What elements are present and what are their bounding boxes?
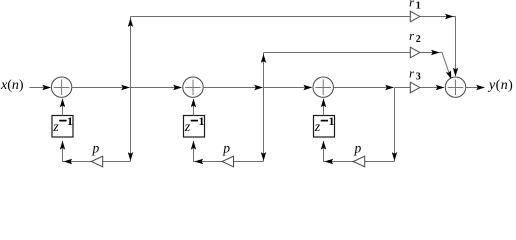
delay Z2 z^-1 box [184,114,205,137]
wire delay Z2 up into adder U2 [193,99,195,116]
svg-text:1: 1 [67,114,73,128]
svg-text:z: z [184,120,191,135]
gain r2 triangle [410,47,420,58]
svg-text:1: 1 [329,114,335,128]
feedback wire junction J3 through gain p3 to delay Z3 [324,141,395,162]
wire rail2 [264,52,411,54]
wire junction J1 vertical [130,17,132,162]
adder U3 [313,77,333,97]
label r1 [409,0,421,12]
wire delay Z3 up into adder U3 [323,99,325,116]
svg-text:z: z [314,120,321,135]
wire junction J2 vertical [263,53,265,162]
gain p3 triangle [353,156,364,167]
wire junction J3 vertical feedback down [394,88,396,162]
delay Z3 z^-1 box [314,114,335,137]
gain r1 triangle [410,11,420,22]
svg-text:p: p [92,141,100,156]
svg-text:z: z [52,120,59,135]
feedback wire junction J1 through gain p1 to delay Z1 [63,141,131,162]
svg-text:x(n): x(n) [0,78,24,93]
wire input to adder U1 [30,87,51,89]
wire r2 to corner, diagonal into adder U4 [420,53,451,79]
adder U2 [183,77,203,97]
svg-text:1: 1 [199,114,205,128]
wire rail1 top [131,16,411,18]
wire junction J1 to adder U2 [131,87,182,89]
wire r1 to corner down into adder U4 [420,17,456,76]
wire adder U4 to output [466,87,484,89]
wire adder U3 to junction J3 [334,87,394,89]
wire junction J3 to gain r3 [395,87,411,89]
svg-text:p: p [354,141,362,156]
svg-text:1: 1 [416,1,421,12]
gain p1 triangle [91,156,102,167]
gain p2 triangle [222,156,233,167]
wire adder U2 to junction J2 [203,87,262,89]
adder U4 [445,77,465,97]
wire junction J2 to adder U3 [264,87,312,89]
adder U1 [51,77,71,97]
svg-text:y(n): y(n) [487,78,513,93]
label r2 [409,28,421,45]
svg-text:3: 3 [416,72,421,83]
svg-text:2: 2 [416,34,421,45]
wire r3 into adder U4 [420,87,444,89]
label r3 [409,65,421,82]
delay Z1 z^-1 box [52,114,73,137]
feedback wire junction J2 through gain p2 to delay Z2 [194,141,264,162]
gain r3 triangle [410,82,420,93]
wire adder U1 to junction J1 [72,87,130,89]
wire delay Z1 up into adder U1 [62,99,64,116]
svg-text:p: p [222,141,230,156]
